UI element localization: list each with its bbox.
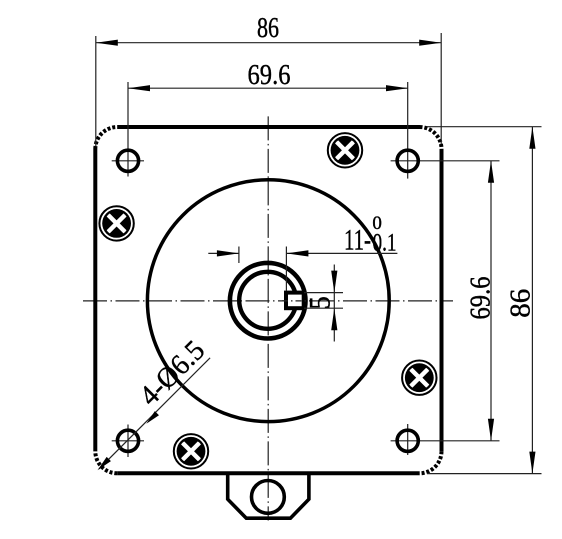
dim 11 shaft: dimension line: [208, 252, 239, 254]
flange corner arc bottom-left: [95, 451, 117, 473]
leader 4-O6.5: line: [99, 358, 210, 469]
screw bottom: [174, 434, 208, 468]
dim 11 shaft: extension lines: [238, 247, 240, 264]
hole bottom-right crosshair: [391, 440, 500, 442]
dim 86 right: dimension line: [531, 127, 533, 474]
svg-text:0.1: 0.1: [373, 230, 397, 257]
flange outline: right edge: [440, 149, 444, 451]
flange corner arc bottom-right: [420, 451, 442, 473]
svg-text:5: 5: [303, 296, 336, 309]
hole top-left crosshair: [112, 160, 144, 162]
screw top: [328, 133, 362, 167]
flange outline: top edge: [117, 125, 419, 129]
keyway: [286, 293, 304, 309]
leader 4-O6.5: mid arrowhead: [144, 411, 159, 426]
svg-text:11-: 11-: [344, 224, 371, 257]
shaft outer circle: [230, 263, 306, 339]
svg-text:69.6: 69.6: [248, 59, 291, 91]
leader 4-O6.5: end arrowhead: [95, 457, 111, 473]
dim 86 right: extension lines: [427, 126, 542, 128]
dim 86 top: extension lines: [95, 36, 97, 146]
flange corner arc top-left: [95, 127, 117, 149]
dim 5 keyway: dimension line: [333, 265, 335, 342]
hole bottom-left: [117, 430, 138, 451]
connector outline: [228, 473, 309, 518]
dim 86 top: dimension line: [96, 42, 441, 44]
screw right: [402, 361, 436, 395]
flange outline: left edge: [93, 149, 97, 451]
dim 69.6 right: dimension line: [490, 161, 492, 441]
hole top-left: [117, 150, 138, 171]
hole top-right: [397, 150, 418, 171]
flange outline: bottom edge: [117, 471, 419, 475]
connector circle: [252, 481, 285, 514]
dim 69.6 top: dimension line: [128, 87, 408, 89]
shaft inner circle: [239, 272, 296, 329]
flange corner arc top-right: [420, 127, 442, 149]
screw left: [99, 206, 133, 240]
svg-text:86: 86: [257, 12, 279, 44]
hole bottom-left crosshair: [112, 440, 144, 442]
hole bottom-right: [397, 430, 418, 451]
pilot circle: [147, 180, 389, 422]
centerline segment across keyway: [282, 300, 310, 302]
dim 5 keyway: extension lines: [304, 292, 343, 294]
horizontal centerline: [83, 300, 453, 302]
svg-text:69.6: 69.6: [465, 277, 497, 320]
hole top-right crosshair: [391, 160, 500, 162]
vertical centerline: [267, 116, 269, 520]
svg-text:86: 86: [504, 289, 536, 318]
